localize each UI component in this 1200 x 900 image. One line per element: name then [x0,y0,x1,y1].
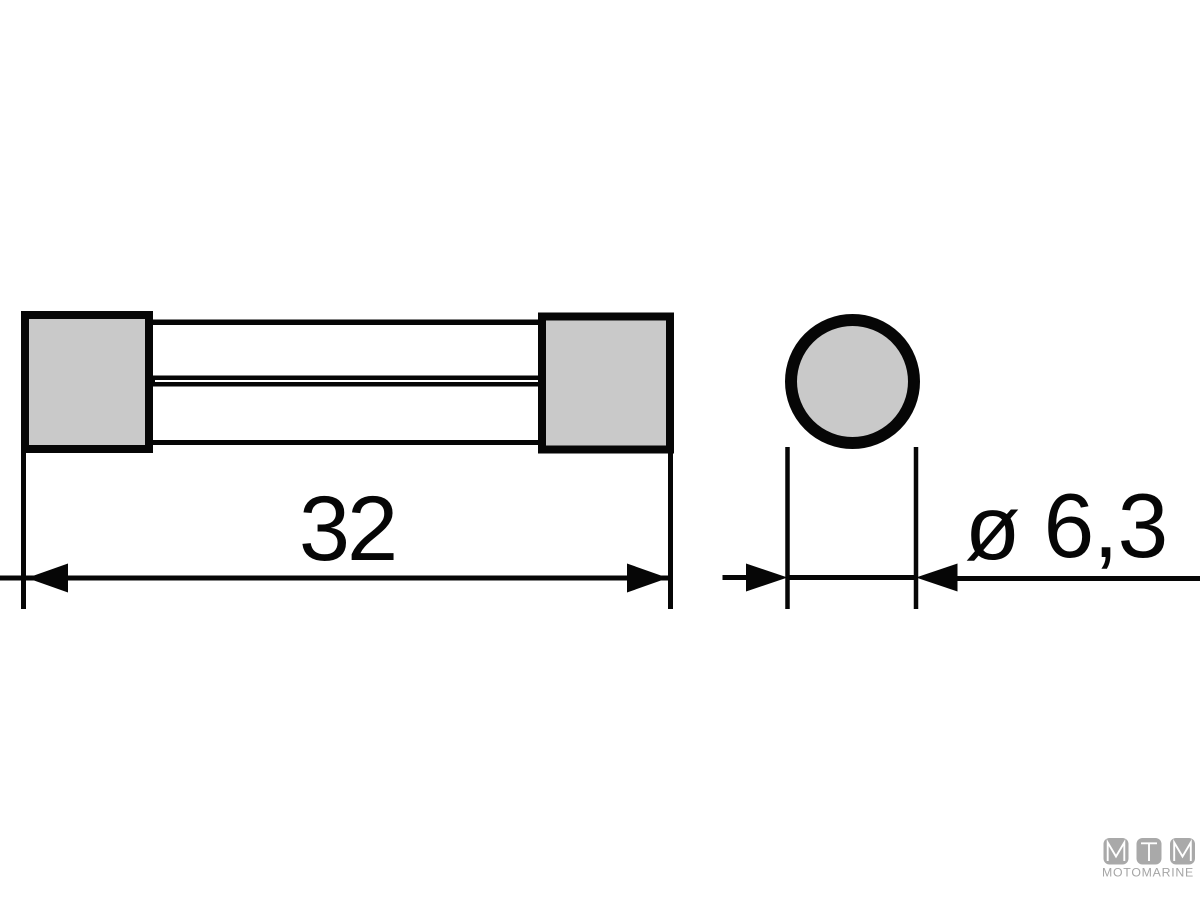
fuse left end cap [25,315,149,449]
dia dimension line middle [788,575,917,580]
logo square M1 [1104,838,1129,865]
fuse right end cap [542,317,670,450]
svg-text:MOTOMARINE: MOTOMARINE [1102,866,1194,880]
logo letter T [1141,843,1157,861]
glass tube top line [150,320,540,326]
dia right arrowhead [916,564,958,592]
circle right extension line [914,447,919,609]
right arrowhead [627,564,668,593]
end-view circle [791,320,914,443]
logo square T [1137,838,1162,865]
left arrowhead [27,564,68,593]
dia dimension line left tail [723,575,749,580]
dimension line 32 [0,576,668,581]
svg-text:32: 32 [299,478,395,580]
logo letter M2 [1174,843,1191,862]
logo square M2 [1170,838,1195,865]
dia left arrowhead [746,564,788,592]
svg-text:ø 6,3: ø 6,3 [965,476,1167,579]
left extension line [21,453,26,609]
logo letter M1 [1108,843,1125,862]
right extension line [668,454,673,610]
glass tube bottom line [150,440,540,445]
fuse wire (double line) [150,376,540,387]
dia dimension line right tail [957,576,1200,581]
circle left extension line [785,447,790,609]
